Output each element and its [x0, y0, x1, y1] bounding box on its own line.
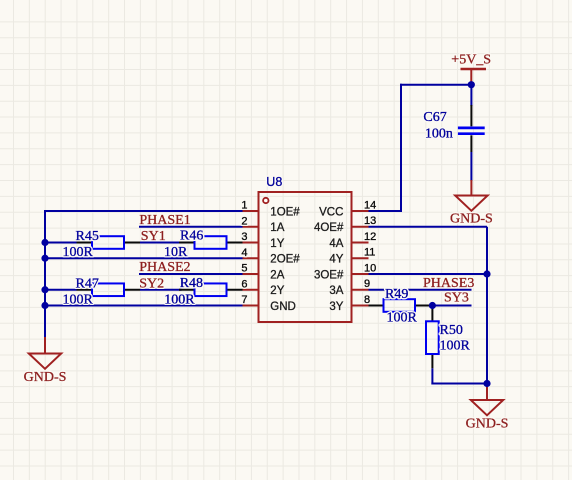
U8 pin 1 stub — [243, 210, 259, 212]
svg-text:4Y: 4Y — [329, 254, 343, 266]
capacitor C67 plates — [458, 128, 485, 134]
svg-text:R48: R48 — [180, 276, 203, 291]
power +5V_S bar symbol — [461, 69, 487, 85]
resistor R47 body — [92, 283, 124, 296]
svg-text:R47: R47 — [76, 276, 99, 291]
svg-text:1A: 1A — [270, 222, 284, 234]
svg-text:PHASE1: PHASE1 — [139, 213, 190, 228]
svg-text:14: 14 — [364, 199, 376, 211]
svg-text:1Y: 1Y — [270, 238, 284, 250]
wire pin13 4OE# horizontal — [369, 226, 488, 228]
svg-text:GND-S: GND-S — [24, 370, 67, 385]
wire pin13 4OE# vertical down — [486, 227, 488, 384]
U8 pin 12 stub — [352, 242, 369, 244]
svg-text:R45: R45 — [76, 229, 99, 244]
U8 pin1 indicator circle — [263, 198, 268, 203]
svg-text:8: 8 — [364, 294, 370, 306]
wire PHASE3 net pin9 — [369, 289, 472, 291]
wire pin7 GND to GND bus — [45, 305, 243, 307]
svg-text:GND: GND — [270, 301, 296, 313]
resistor R46 leads — [179, 242, 243, 244]
svg-text:SY3: SY3 — [444, 290, 469, 305]
wire +5V junction to C67 top — [470, 85, 472, 106]
wire SY2 net R47-R48 — [140, 289, 182, 291]
svg-text:3Y: 3Y — [329, 301, 343, 313]
U8 pin 11 stub — [352, 257, 369, 259]
wire pin1 1OE# to GND bus — [44, 210, 243, 212]
svg-text:SY1: SY1 — [141, 229, 166, 244]
svg-text:1: 1 — [241, 200, 247, 212]
resistor R47 leads — [77, 289, 141, 291]
resistor R49 leads — [369, 305, 433, 307]
svg-text:2OE#: 2OE# — [270, 254, 300, 266]
U8 pin 14 stub — [352, 210, 369, 212]
U8 pin 13 stub — [352, 226, 369, 228]
svg-text:100R: 100R — [387, 310, 418, 325]
svg-text:4A: 4A — [329, 238, 343, 250]
svg-text:PHASE2: PHASE2 — [139, 260, 190, 275]
svg-text:10: 10 — [364, 262, 376, 274]
U8 pin 10 stub — [352, 273, 369, 275]
wire VCC to +5V junction — [400, 84, 471, 86]
svg-text:GND-S: GND-S — [466, 417, 509, 432]
junction dot — [41, 286, 48, 293]
wire pin14 VCC horizontal — [369, 210, 402, 212]
wire pin14 VCC vertical — [400, 84, 402, 212]
junction dot — [483, 380, 490, 387]
U8 pin 9 stub — [352, 289, 369, 291]
svg-text:7: 7 — [241, 294, 247, 306]
ground GND-S symbol — [455, 196, 487, 211]
wire PHASE2 net stub to pin5 — [139, 273, 243, 275]
svg-text:4: 4 — [241, 247, 247, 259]
wire SY3 net from R49 junction — [432, 305, 471, 307]
ground stem left bus — [44, 337, 46, 355]
capacitor C67 leads — [470, 105, 472, 152]
ground stem C67 — [470, 180, 472, 197]
wire GND bus to R45 left — [45, 242, 77, 244]
U8 pin 4 stub — [243, 257, 259, 259]
svg-text:SY2: SY2 — [139, 277, 164, 292]
U8 pin 8 stub — [352, 305, 369, 307]
resistor R50 leads — [431, 306, 433, 369]
svg-text:10R: 10R — [164, 245, 188, 260]
svg-text:R46: R46 — [180, 229, 203, 244]
svg-text:100R: 100R — [164, 292, 195, 307]
svg-text:13: 13 — [364, 215, 376, 227]
junction dot — [483, 270, 490, 277]
IC U8 body — [259, 192, 352, 322]
svg-text:12: 12 — [364, 231, 376, 243]
ground stem bottom right — [486, 384, 488, 402]
resistor R45 leads — [77, 242, 141, 244]
resistor R50 body — [426, 321, 439, 354]
svg-text:11: 11 — [364, 247, 375, 259]
junction dot — [41, 255, 48, 262]
U8 pin 5 stub — [243, 273, 259, 275]
ground GND-S symbol — [29, 354, 61, 369]
wire PHASE1 net stub to pin2 — [139, 226, 243, 228]
svg-text:GND-S: GND-S — [450, 211, 493, 226]
wire R50 bottom corner — [431, 368, 487, 384]
svg-text:PHASE3: PHASE3 — [423, 276, 474, 291]
U8 pin 7 stub — [243, 305, 259, 307]
wire SY1 net R45-R46 — [140, 242, 182, 244]
junction dot — [41, 239, 48, 246]
svg-text:100n: 100n — [425, 127, 453, 142]
U8 pin 3 stub — [243, 242, 259, 244]
svg-text:6: 6 — [241, 278, 247, 290]
wire pin10 3OE# horizontal — [369, 273, 488, 275]
U8 pin 2 stub — [243, 226, 259, 228]
svg-text:+5V_S: +5V_S — [451, 52, 491, 67]
ground GND-S symbol — [471, 400, 503, 415]
resistor R45 body — [92, 236, 124, 249]
svg-text:U8: U8 — [266, 175, 282, 189]
U8 pin 6 stub — [243, 289, 259, 291]
junction dot — [429, 302, 436, 309]
svg-text:5: 5 — [241, 263, 247, 275]
svg-text:100R: 100R — [63, 245, 94, 260]
svg-text:C67: C67 — [423, 110, 446, 125]
svg-text:3A: 3A — [329, 285, 343, 297]
wire C67 bottom to GND-S — [470, 152, 472, 181]
svg-text:100R: 100R — [63, 292, 94, 307]
svg-text:2A: 2A — [270, 269, 284, 281]
svg-text:9: 9 — [364, 278, 370, 290]
junction dot — [41, 302, 48, 309]
svg-text:R49: R49 — [385, 287, 408, 302]
resistor R48 body — [195, 283, 227, 296]
svg-text:2Y: 2Y — [270, 285, 284, 297]
wire GND bus vertical left — [44, 210, 46, 338]
junction dot — [468, 81, 475, 88]
resistor R48 leads — [179, 289, 243, 291]
svg-text:3: 3 — [241, 231, 247, 243]
svg-text:1OE#: 1OE# — [270, 206, 300, 218]
svg-text:2: 2 — [241, 215, 247, 227]
resistor R46 body — [195, 236, 227, 249]
wire pin4 2OE# to GND bus — [45, 257, 243, 259]
wire GND bus to R47 left — [45, 289, 77, 291]
svg-text:VCC: VCC — [319, 206, 343, 218]
svg-text:100R: 100R — [440, 338, 471, 353]
svg-text:3OE#: 3OE# — [314, 269, 344, 281]
resistor R49 body — [384, 299, 416, 312]
svg-text:R50: R50 — [440, 323, 463, 338]
svg-text:4OE#: 4OE# — [314, 222, 344, 234]
